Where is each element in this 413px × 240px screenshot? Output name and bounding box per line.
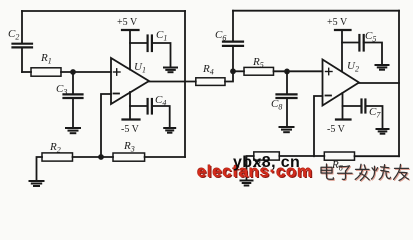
- wire C7 tap: [343, 105, 362, 107]
- capacitor C4: [148, 99, 152, 114]
- wire to R1: [22, 71, 31, 73]
- node D junction: [284, 69, 290, 75]
- wire C2 top stem: [21, 11, 23, 44]
- resistor R4: [196, 78, 225, 86]
- wire R1 to op-amp: [61, 71, 111, 73]
- wire C6 bottom stem: [232, 46, 234, 71]
- svg-text:C1: C1: [156, 29, 167, 43]
- wire C1 to ground: [152, 43, 171, 67]
- svg-text:C7: C7: [369, 106, 381, 120]
- power -5V bar stage2: [336, 118, 351, 120]
- watermark elecfans.com red: [197, 163, 313, 180]
- node A junction: [70, 69, 76, 75]
- svg-text:C3: C3: [56, 83, 67, 97]
- svg-text:R3: R3: [123, 140, 135, 154]
- ground C1: [164, 68, 177, 73]
- svg-text:+5 V: +5 V: [117, 17, 138, 28]
- wire R4 to node C: [225, 71, 233, 81]
- capacitor C2: [13, 44, 33, 48]
- wire top feedback stage2: [233, 10, 399, 12]
- wire R6 to feedback: [355, 155, 400, 157]
- svg-text:R1: R1: [40, 52, 52, 66]
- ground R2: [30, 181, 44, 186]
- wire C1 tap: [130, 42, 147, 44]
- wire C4 tap: [130, 105, 147, 107]
- ground C5: [376, 65, 389, 70]
- resistor R7: [254, 152, 279, 160]
- power -5V bar stage1: [123, 118, 140, 120]
- svg-text:C2: C2: [8, 28, 19, 42]
- wire -5V stem stage1: [129, 92, 131, 120]
- wire C5 tap: [342, 42, 359, 44]
- resistor R5: [244, 67, 274, 75]
- pin plus U1: [114, 69, 121, 75]
- wire top feedback stage1: [22, 10, 185, 12]
- wire U1 output: [149, 81, 196, 83]
- wire U2 output: [359, 82, 399, 84]
- wire C4 to ground: [152, 106, 170, 128]
- wire R2 to node B: [73, 156, 114, 158]
- wire C8 to ground: [286, 98, 288, 127]
- wire C5 to ground: [364, 43, 382, 65]
- wire C3 stem: [72, 72, 74, 94]
- svg-text:C6: C6: [215, 29, 226, 43]
- wire minus input L stage1: [101, 94, 111, 157]
- wire R7 to ground: [247, 156, 254, 180]
- resistor R6: [324, 152, 354, 160]
- svg-text:U1: U1: [134, 61, 146, 75]
- ground C7: [377, 129, 389, 134]
- wire R3 to feedback: [145, 156, 185, 158]
- wire C7 to ground: [365, 106, 382, 129]
- power +5V bar stage1: [122, 29, 139, 31]
- svg-text:R2: R2: [49, 141, 61, 155]
- ground C3: [66, 128, 80, 133]
- pin plus U2: [326, 68, 333, 74]
- svg-text:+5 V: +5 V: [327, 17, 348, 28]
- wire +5V stem stage2: [341, 30, 343, 71]
- wire C3 to ground: [72, 98, 74, 128]
- node C junction: [230, 68, 236, 74]
- svg-text:R4: R4: [202, 63, 214, 77]
- svg-text:C5: C5: [365, 30, 376, 44]
- wire right feedback vertical stage1: [184, 11, 186, 157]
- wire right feedback vertical stage2: [398, 11, 400, 157]
- ground R7: [241, 181, 253, 186]
- svg-text:C8: C8: [271, 98, 282, 112]
- svg-text:U2: U2: [347, 60, 359, 74]
- op-amp U1: [111, 58, 149, 104]
- svg-text:-5 V: -5 V: [327, 124, 346, 135]
- resistor R3: [113, 153, 145, 161]
- power +5V bar stage2: [335, 29, 351, 31]
- capacitor C6: [223, 42, 243, 46]
- wire R5 to op-amp U2: [274, 70, 323, 72]
- wire node C to R5: [233, 70, 244, 72]
- ground C4: [164, 128, 175, 133]
- svg-text:R5: R5: [252, 56, 264, 70]
- wire minus input L stage2: [314, 96, 323, 156]
- wire C2 bottom stem: [21, 47, 23, 72]
- wire -5V stem stage2: [342, 93, 344, 120]
- watermark chinese 电子发烧友: [318, 162, 413, 186]
- capacitor C5: [359, 35, 363, 51]
- watermark ybx8.cn black: [233, 155, 300, 171]
- wire R7 to R6: [279, 155, 324, 157]
- node B junction: [98, 154, 104, 160]
- wire R2 to ground: [37, 157, 43, 181]
- capacitor C3: [64, 94, 83, 98]
- capacitor C8: [277, 94, 297, 98]
- wire C8 stem: [286, 71, 288, 94]
- pin minus U1: [114, 93, 120, 95]
- wire +5V stem stage1: [129, 30, 131, 70]
- capacitor C1: [148, 36, 152, 52]
- svg-text:C4: C4: [155, 94, 166, 108]
- op-amp U2: [323, 60, 360, 106]
- wire C6 top stem: [232, 11, 234, 42]
- resistor R1: [31, 68, 61, 76]
- svg-text:-5 V: -5 V: [121, 124, 140, 135]
- pin minus U2: [326, 95, 332, 97]
- ground C8: [280, 127, 294, 132]
- resistor R2: [42, 153, 73, 161]
- capacitor C7: [362, 100, 366, 113]
